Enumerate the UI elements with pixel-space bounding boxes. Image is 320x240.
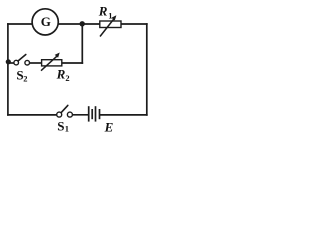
- svg-text:R: R: [56, 66, 66, 81]
- node junction dot (top wire to riser): [80, 21, 85, 26]
- wire top right segment (R1 to corner): [121, 23, 147, 25]
- svg-text:1: 1: [65, 124, 69, 134]
- wire left vertical: [7, 24, 9, 115]
- svg-text:S: S: [57, 118, 64, 133]
- svg-text:R: R: [98, 4, 108, 19]
- galvanometer G: [32, 9, 58, 35]
- wire top-left segment: [8, 23, 33, 25]
- resistor R1 (rheostat): [100, 15, 121, 36]
- wire S2 to R2: [30, 62, 42, 64]
- resistor R2 (rheostat): [41, 53, 62, 71]
- battery E cells: [89, 106, 100, 121]
- wire riser up to top junction: [81, 24, 83, 63]
- wire S1 to battery: [72, 114, 88, 116]
- wire middle branch left (dot to S2): [8, 62, 14, 64]
- switch S2: [14, 55, 30, 66]
- wire top middle segment (G to R1): [59, 23, 100, 25]
- wire bottom left (corner to S1): [8, 114, 57, 116]
- svg-text:E: E: [104, 120, 114, 135]
- wire R2 right to riser: [62, 62, 83, 64]
- svg-text:G: G: [41, 14, 51, 29]
- svg-text:1: 1: [108, 11, 112, 21]
- switch S1: [57, 105, 73, 117]
- wire right vertical: [146, 24, 148, 115]
- svg-text:2: 2: [23, 73, 27, 83]
- svg-text:2: 2: [65, 73, 69, 83]
- node junction dot (left wire to middle branch): [6, 59, 11, 64]
- wire bottom right (corner to battery): [101, 114, 147, 116]
